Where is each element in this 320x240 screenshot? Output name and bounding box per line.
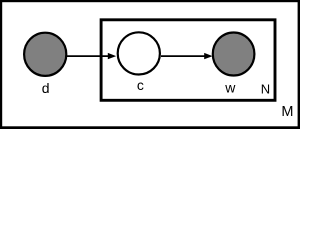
svg-text:w: w xyxy=(224,80,236,96)
svg-text:c: c xyxy=(137,77,144,93)
svg-text:d: d xyxy=(42,80,50,96)
svg-text:M: M xyxy=(281,104,293,120)
svg-text:N: N xyxy=(261,82,270,97)
